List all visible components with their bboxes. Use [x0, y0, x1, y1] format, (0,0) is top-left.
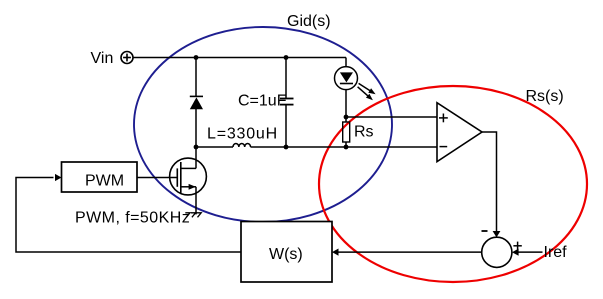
diode D1 [190, 96, 203, 109]
wire diode branch upper [195, 58, 197, 97]
wire diode branch lower [195, 109, 197, 147]
wire PWM output to gate [137, 177, 177, 179]
node top-left junction [194, 55, 199, 60]
svg-text:C=1uF: C=1uF [238, 93, 287, 110]
capacitor C1 [280, 99, 294, 105]
resistor Rs [343, 122, 350, 142]
arrow into W(s) (left) [332, 249, 339, 256]
wire W(s) output to left rail [16, 178, 241, 253]
LED emission arrow 2 [358, 87, 373, 101]
svg-text:Rs(s): Rs(s) [526, 88, 564, 105]
wire summing junction to W(s) [337, 251, 482, 253]
label minus at summing junction [482, 230, 488, 232]
svg-text:PWM: PWM [85, 173, 124, 190]
annotation squiggle arrow at MOSFET source [185, 213, 201, 218]
summing junction S1 [482, 237, 512, 267]
svg-text:Iref: Iref [544, 244, 568, 261]
wire top rail [133, 57, 346, 59]
transistor Q1 (MOSFET) [170, 158, 207, 195]
wire Rs top lead [345, 117, 347, 122]
node Rs bottom junction [344, 145, 349, 150]
arrow Iref into summing junction (left) [512, 249, 519, 256]
node top-right junction [284, 55, 289, 60]
svg-text:PWM, f=50KHz: PWM, f=50KHz [75, 209, 190, 226]
loop ellipse Rs(s) (red) [319, 86, 587, 282]
svg-text:Vin: Vin [91, 50, 114, 67]
inductor L1 [233, 144, 251, 148]
svg-text:W(s): W(s) [269, 246, 303, 263]
LED D2 [335, 67, 358, 90]
LED emission arrow 1 [359, 83, 376, 94]
wire Iref input [518, 251, 543, 253]
svg-text:L=330uH: L=330uH [207, 126, 278, 143]
wire capacitor branch lower [285, 105, 287, 147]
wire MOSFET drain to rail [195, 147, 197, 168]
wire op-amp plus input [346, 116, 437, 118]
wire LED branch top [345, 58, 347, 68]
wire bottom rail left segment [196, 146, 233, 148]
node inductor-capacitor junction [194, 145, 199, 150]
loop ellipse Gid(s) (blue) [134, 27, 392, 222]
wire capacitor branch upper [285, 58, 287, 99]
svg-text:Rs: Rs [354, 124, 374, 141]
svg-text:Gid(s): Gid(s) [287, 13, 331, 30]
op-amp U1 [437, 103, 482, 162]
arrow into PWM block (right) [55, 174, 62, 181]
block PWM [62, 162, 138, 192]
block W(s) [241, 222, 332, 283]
node capacitor bottom junction [284, 145, 289, 150]
wire LED branch bottom [345, 90, 347, 118]
wire Rs bottom lead [345, 142, 347, 147]
wire bottom rail right segment (op-amp minus input) [251, 146, 438, 148]
label plus at summing junction [513, 242, 521, 250]
node LED / Rs top junction [344, 115, 349, 120]
source terminal (Vin circle with plus) [121, 52, 133, 64]
wire MOSFET source lead [195, 187, 197, 215]
wire op-amp output [482, 132, 497, 233]
arrow into summing junction (down) [493, 231, 501, 237]
